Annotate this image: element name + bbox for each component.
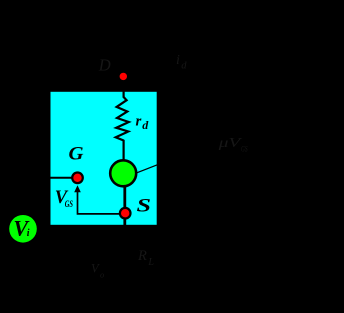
V_GS arrow head: [74, 185, 81, 192]
V_GS arrow wire L to S: [78, 192, 126, 214]
dependent current source U1: [110, 160, 136, 186]
pointer line to dependent source: [137, 140, 220, 173]
input source V_i (green circle): [9, 215, 37, 243]
svg-text:S: S: [137, 197, 152, 217]
svg-text:r: r: [136, 113, 142, 129]
svg-text:d: d: [142, 118, 149, 132]
node D (red dot): [119, 72, 129, 82]
FET model box (cyan): [51, 92, 157, 225]
thick wire source circle to S node: [123, 186, 126, 225]
svg-text:i: i: [176, 53, 180, 68]
svg-text:o: o: [100, 270, 104, 280]
svg-text:D: D: [98, 56, 111, 75]
node G (red dot): [72, 173, 83, 184]
svg-text:μV: μV: [217, 136, 242, 151]
svg-text:GS: GS: [65, 199, 73, 209]
svg-text:R: R: [137, 248, 147, 264]
svg-text:L: L: [147, 257, 154, 268]
wire from input to gate: [38, 177, 78, 179]
wire resistor to source circle: [122, 140, 124, 161]
svg-text:d: d: [181, 61, 187, 72]
svg-text:G: G: [69, 145, 85, 165]
node S (red dot): [120, 208, 131, 219]
svg-text:GS: GS: [241, 144, 248, 153]
resistor r_d: [116, 97, 129, 141]
wire drain lead: [122, 77, 124, 98]
svg-text:i: i: [27, 228, 30, 239]
